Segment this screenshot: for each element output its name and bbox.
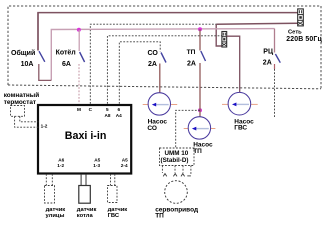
svg-text:ТП: ТП (155, 213, 164, 220)
svg-text:РЦ: РЦ (263, 48, 274, 55)
wire pump GVS plug to pump GVS (227, 36, 240, 92)
pump TP (184, 117, 216, 155)
breaker QF1 Obschiy 10A (11, 13, 45, 68)
breaker QF4 TP 2A (187, 29, 206, 67)
UMM connection legs dashed with chevrons (162, 166, 191, 177)
svg-text:А8: А8 (105, 113, 111, 118)
svg-text:ТП: ТП (187, 49, 196, 56)
svg-text:А5: А5 (122, 157, 128, 162)
wire pink distribution bus (51, 29, 274, 81)
panel enclosure bottom edge (dashed bus line) (8, 85, 321, 89)
svg-text:М: М (77, 107, 81, 112)
wire C dashed (neutral from Baxi C terminal) (90, 24, 216, 104)
svg-text:220В 50Гц: 220В 50Гц (286, 36, 322, 43)
wire TP control dashed to UMM (176, 110, 200, 148)
svg-text:1-2: 1-2 (57, 163, 64, 168)
svg-text:2А: 2А (148, 61, 157, 68)
svg-text:2-4: 2-4 (121, 163, 128, 168)
wire kotel output to Baxi M (pink dashed) (78, 64, 80, 104)
svg-text:Сеть: Сеть (288, 29, 302, 35)
svg-text:ТП: ТП (193, 148, 202, 155)
svg-text:UMM 10: UMM 10 (165, 150, 189, 157)
svg-text:5: 5 (106, 107, 109, 112)
pump SO (143, 93, 178, 132)
svg-text:А5: А5 (94, 157, 100, 162)
DHW sensor (datchik GVS) (108, 174, 128, 219)
svg-text:6: 6 (118, 107, 121, 112)
breaker QF5 RC 2A (263, 29, 281, 67)
svg-text:СО: СО (147, 125, 157, 132)
node junction dot TP (198, 27, 202, 31)
breaker QF3 SO 2A (148, 50, 167, 68)
svg-text:ГВС: ГВС (108, 213, 120, 219)
svg-text:ГВС: ГВС (234, 125, 247, 132)
wire RC dashed down (to remote circulation pump) (274, 69, 276, 119)
boiler sensor (datchik kotla) (77, 174, 97, 219)
connector XP1 mains plug (298, 9, 304, 26)
wire RC breaker bottom red stub (274, 64, 276, 69)
svg-text:термостат: термостат (4, 99, 36, 106)
room thermostat dashed box (4, 91, 40, 116)
svg-text:комнатный: комнатный (4, 91, 40, 99)
svg-text:6А: 6А (62, 61, 71, 68)
connector XP2 pump GVS plug (222, 32, 227, 48)
node junction dot kotel (77, 28, 81, 32)
Baxi i-in controller box U1 (38, 105, 131, 174)
svg-text:Общий: Общий (11, 49, 35, 57)
wire thermostat to Baxi terminal 1 (20, 116, 39, 122)
wire N solid segment to mains connector (216, 23, 298, 24)
UMM 10 Stabil-D dashed box (160, 148, 195, 166)
svg-text:Baxi i-in: Baxi i-in (65, 130, 107, 142)
panel enclosure dashed box (8, 6, 321, 89)
svg-text:СО: СО (148, 50, 159, 57)
svg-text:А4: А4 (116, 113, 122, 118)
wire N branch down to pump GVS plug bottom cell (216, 24, 222, 46)
wire L bus (mains phase, maroon) (38, 13, 298, 51)
svg-text:2А: 2А (263, 59, 272, 66)
pump GVS (222, 92, 258, 131)
wire SO breaker to pump SO (159, 64, 161, 94)
svg-text:Котёл: Котёл (56, 49, 76, 56)
wire thermostat to Baxi terminal 2 (15, 116, 39, 127)
svg-text:1-3: 1-3 (93, 163, 100, 168)
label Set 220V 50Hz (286, 29, 322, 43)
breaker QF2 Kotel 6A (56, 30, 85, 68)
wire Baxi pin 6 dashed up to SO breaker (119, 42, 160, 104)
svg-text:1-2: 1-2 (41, 124, 48, 129)
svg-text:10А: 10А (21, 61, 34, 68)
node junction dot TP control (198, 108, 202, 112)
outdoor sensor (datchik ulitsy) (45, 174, 66, 219)
wire Baxi pin 5 dashed up and to pump GVS plug (107, 36, 221, 104)
svg-text:котла: котла (77, 213, 94, 219)
wire breaker Obschiy output U-loop (39, 64, 52, 80)
wire TP breaker to pump TP (199, 63, 201, 117)
svg-text:улицы: улицы (46, 213, 65, 219)
svg-text:А6: А6 (58, 157, 64, 162)
svg-text:(Stabil-D): (Stabil-D) (161, 157, 189, 164)
svg-text:2А: 2А (187, 61, 196, 68)
servo drive TP dashed circle (155, 181, 198, 220)
